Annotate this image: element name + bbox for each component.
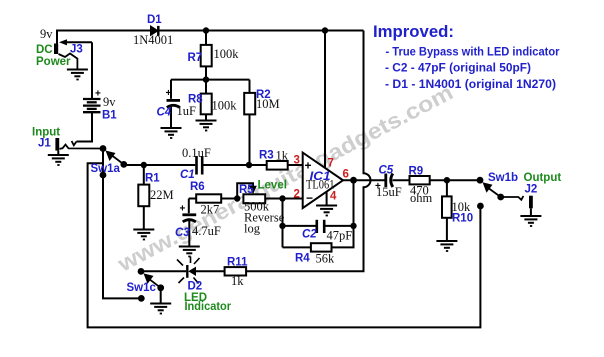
node Sw1a pole — [100, 145, 107, 152]
resistor R1 — [138, 165, 149, 229]
svg-text:log: log — [244, 222, 261, 236]
wire pin7 — [324, 31, 326, 169]
resistor R6 — [189, 194, 237, 202]
battery B1 — [83, 99, 101, 112]
node rail/pin7 junction — [322, 27, 328, 33]
switch Sw1c — [144, 273, 161, 287]
svg-text:R10: R10 — [452, 213, 473, 225]
ground (C3) — [179, 247, 200, 257]
svg-text:+: + — [180, 204, 186, 215]
svg-text:2k7: 2k7 — [201, 203, 220, 217]
node R7/R8 junction — [203, 76, 209, 82]
svg-text:J3: J3 — [70, 44, 83, 56]
J1 ring contact — [72, 141, 77, 145]
svg-text:- C2 - 47pF (original 50pF): - C2 - 47pF (original 50pF) — [385, 61, 531, 75]
node C2 left — [279, 223, 285, 229]
svg-text:1N4001: 1N4001 — [133, 33, 173, 47]
resistor R9 — [410, 176, 481, 184]
J3 plug arrow wire — [59, 39, 92, 45]
wire LED supply vertical with hop — [246, 31, 370, 272]
node R2 bottom — [246, 162, 252, 168]
svg-text:15uF: 15uF — [376, 185, 402, 199]
capacitor C5 electrolytic — [386, 174, 410, 188]
resistor R8 — [201, 80, 212, 120]
ground (R1) — [133, 230, 154, 240]
node pin2 junction — [279, 195, 285, 201]
node R1 top — [141, 162, 147, 168]
DC jack J3 bar — [54, 44, 58, 55]
svg-text:Improved:: Improved: — [373, 23, 454, 41]
wire battery + lead — [91, 42, 93, 99]
wire LED line left segment — [141, 270, 186, 272]
resistor R2 — [244, 80, 255, 165]
svg-text:ohm: ohm — [410, 191, 433, 205]
node R6/R5 junction — [234, 195, 240, 201]
ground (C4) — [161, 128, 182, 138]
wire Sw1b to J2 — [501, 196, 524, 200]
switch Sw1b — [483, 182, 501, 197]
capacitor C1 — [197, 156, 203, 175]
resistor R4 — [311, 243, 332, 251]
svg-text:+: + — [166, 88, 172, 99]
svg-text:Indicator: Indicator — [185, 301, 232, 313]
svg-text:56k: 56k — [316, 252, 336, 266]
output jack J2 bar — [529, 196, 533, 209]
ground (R8) — [196, 121, 217, 131]
switch Sw1a — [106, 151, 124, 165]
svg-text:R1: R1 — [145, 173, 160, 185]
svg-text:1k: 1k — [276, 149, 289, 163]
node Sw1a throw — [120, 161, 127, 168]
ground (J2) — [530, 208, 532, 215]
ground (J3) — [67, 70, 88, 80]
svg-text:7: 7 — [328, 158, 334, 170]
svg-text:1uF: 1uF — [177, 104, 197, 118]
svg-text:J2: J2 — [525, 184, 538, 196]
ground (Sw1c) — [150, 304, 171, 314]
svg-text:−: − — [306, 191, 313, 205]
wire R7 bottom rail — [171, 79, 250, 81]
LED D2 — [177, 257, 200, 284]
wire op-amp output — [343, 179, 385, 181]
svg-text:6: 6 — [343, 169, 349, 181]
svg-text:R11: R11 — [227, 257, 248, 269]
capacitor C3 electrolytic — [182, 199, 196, 246]
svg-text:R6: R6 — [190, 181, 205, 193]
svg-text:Sw1b: Sw1b — [488, 172, 518, 184]
svg-text:D2: D2 — [188, 281, 203, 293]
ground (R10) — [436, 241, 457, 251]
potentiometer R5 body — [243, 194, 302, 203]
svg-text:+: + — [95, 89, 101, 100]
J1 tip contact wire — [60, 145, 104, 149]
wire C2 line — [283, 225, 354, 227]
wire R4 line — [283, 180, 354, 247]
svg-text:DC: DC — [36, 44, 53, 56]
op-amp IC1 — [303, 153, 343, 209]
node Sw1b bypass throw — [477, 203, 484, 210]
svg-text:100k: 100k — [214, 47, 240, 61]
capacitor C4 electrolytic — [167, 80, 181, 127]
svg-text:- D1 - 1N4001 (original 1N270): - D1 - 1N4001 (original 1N270) — [385, 77, 556, 91]
svg-text:C2: C2 — [302, 229, 317, 241]
svg-text:Output: Output — [524, 172, 562, 184]
node Sw1c pole — [138, 268, 145, 275]
wire main signal line — [124, 164, 196, 166]
svg-text:Level: Level — [258, 180, 287, 192]
input jack J1 bar — [55, 138, 59, 151]
capacitor C2 — [317, 220, 324, 233]
node on pole line — [100, 172, 107, 179]
svg-text:9v: 9v — [103, 95, 116, 109]
svg-text:4.7uF: 4.7uF — [192, 224, 221, 238]
wire feedback left vertical — [282, 199, 284, 248]
svg-text:0.1uF: 0.1uF — [182, 146, 211, 160]
svg-text:100k: 100k — [212, 99, 238, 113]
svg-text:C3: C3 — [175, 227, 190, 239]
node C2 right — [350, 223, 356, 229]
svg-text:R9: R9 — [409, 166, 424, 178]
svg-text:10M: 10M — [256, 97, 280, 111]
svg-text:22M: 22M — [150, 188, 174, 202]
wire power rail 9v — [57, 31, 364, 45]
node output junction — [350, 177, 357, 184]
svg-text:D1: D1 — [147, 14, 162, 26]
node rail/R7 junction — [203, 27, 209, 33]
resistor R11 — [225, 267, 247, 275]
diode D1 — [151, 26, 159, 36]
node Sw1c throw — [138, 295, 145, 302]
resistor R7 — [201, 31, 212, 80]
J3 sleeve contact wire — [59, 54, 78, 69]
node R10 top — [444, 177, 450, 183]
svg-text:C5: C5 — [379, 165, 394, 177]
svg-text:- True Bypass with LED indicat: - True Bypass with LED indicator — [386, 45, 560, 59]
node Sw1c ground throw — [157, 284, 164, 291]
node Sw1b output throw — [497, 194, 504, 201]
wire bypass line — [88, 163, 481, 327]
wire Sw1c throw to ground — [160, 288, 162, 303]
resistor R3 — [267, 161, 288, 170]
svg-text:3: 3 — [294, 155, 300, 167]
svg-text:Sw1c: Sw1c — [127, 282, 157, 294]
svg-text:9v: 9v — [40, 27, 53, 41]
R5 wiper wire — [237, 183, 257, 198]
svg-text:TL061: TL061 — [306, 178, 335, 192]
svg-text:R3: R3 — [259, 150, 274, 162]
ground (pin4) — [316, 206, 337, 216]
node Sw1b pole — [477, 177, 484, 184]
wire pin4 — [326, 192, 328, 205]
wire battery - to input jack ring — [77, 112, 93, 141]
svg-text:B1: B1 — [102, 110, 117, 122]
svg-text:J1: J1 — [38, 138, 51, 150]
wire Sw1a pole down to Sw1c throw — [103, 149, 141, 299]
svg-text:1k: 1k — [231, 274, 244, 288]
svg-text:Power: Power — [36, 56, 71, 68]
ground (J1) — [57, 151, 59, 154]
resistor R10 — [442, 180, 452, 240]
svg-text:R4: R4 — [295, 253, 310, 265]
watermark www.generalguitargadgets.com — [113, 79, 457, 277]
svg-text:2: 2 — [294, 189, 300, 201]
svg-text:47pF: 47pF — [327, 229, 353, 243]
svg-text:R7: R7 — [188, 52, 203, 64]
svg-text:C1: C1 — [180, 169, 195, 181]
svg-text:C4: C4 — [157, 107, 172, 119]
svg-text:4: 4 — [330, 191, 337, 203]
svg-text:R5: R5 — [239, 184, 254, 196]
